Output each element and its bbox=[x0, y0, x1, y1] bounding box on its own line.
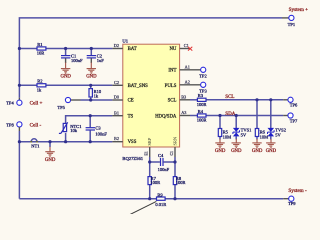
svg-text:INT: INT bbox=[168, 69, 176, 74]
resistor R8 100R bbox=[173, 176, 185, 185]
svg-text:R9: R9 bbox=[157, 192, 163, 197]
svg-text:TP1: TP1 bbox=[288, 22, 296, 27]
test point TP9 bbox=[283, 196, 296, 206]
resistor R4 100R bbox=[197, 109, 207, 123]
test point TP5 bbox=[57, 97, 80, 110]
annotation leader line bbox=[130, 201, 156, 214]
wire R5 column bbox=[219, 116, 221, 140]
ground under TVS2 bbox=[266, 139, 277, 154]
wire TS row bbox=[66, 116, 113, 142]
svg-text:SRP: SRP bbox=[147, 137, 152, 145]
wire R6 column bbox=[256, 100, 258, 140]
svg-text:TP7: TP7 bbox=[290, 118, 298, 123]
svg-text:A1: A1 bbox=[185, 65, 190, 70]
test point TP8 bbox=[6, 122, 22, 131]
pin INT A1 wire to TP2 bbox=[180, 65, 201, 70]
resistor R7 100R bbox=[148, 176, 160, 185]
wire bottom rail System- bbox=[19, 198, 283, 200]
svg-text:C2: C2 bbox=[114, 80, 119, 85]
op IC U1 BQ27Z561 body bbox=[122, 39, 179, 161]
svg-text:TP6: TP6 bbox=[290, 103, 298, 108]
svg-text:TP9: TP9 bbox=[288, 201, 296, 206]
svg-text:100R: 100R bbox=[197, 118, 207, 123]
wire R7 column bbox=[149, 162, 151, 199]
svg-text:R2: R2 bbox=[37, 79, 42, 84]
wire top rail Cell+ to System+ bbox=[19, 18, 282, 98]
svg-text:GND: GND bbox=[266, 149, 277, 154]
svg-text:B3: B3 bbox=[181, 95, 186, 100]
capacitor C2 1uF bbox=[87, 49, 105, 64]
svg-text:GND: GND bbox=[215, 149, 226, 154]
svg-text:HDQ/SDA: HDQ/SDA bbox=[155, 114, 177, 119]
wire TVS1 column bbox=[235, 116, 237, 140]
svg-text:C1: C1 bbox=[170, 151, 174, 156]
svg-text:A2: A2 bbox=[185, 80, 190, 85]
svg-text:System -: System - bbox=[288, 188, 307, 194]
pin CE D0 bbox=[112, 95, 122, 100]
svg-text:10k: 10k bbox=[70, 128, 78, 133]
ground under C2 bbox=[86, 63, 97, 80]
svg-text:NU: NU bbox=[169, 47, 176, 52]
svg-text:SCL: SCL bbox=[168, 99, 177, 104]
svg-text:10M: 10M bbox=[223, 135, 232, 140]
svg-text:10M: 10M bbox=[260, 135, 269, 140]
svg-text:TP3: TP3 bbox=[199, 89, 207, 94]
svg-text:BAT: BAT bbox=[128, 47, 137, 52]
pin PULS A2 wire to TP3 bbox=[180, 80, 201, 85]
pin BAT D2 bbox=[112, 43, 122, 48]
svg-text:10R: 10R bbox=[37, 51, 45, 56]
svg-text:B1: B1 bbox=[114, 110, 119, 115]
pin VSS B2 bbox=[112, 136, 122, 142]
power label System + bbox=[289, 7, 309, 13]
svg-text:100nF: 100nF bbox=[158, 167, 170, 172]
svg-text:C4: C4 bbox=[158, 153, 164, 158]
svg-text:TP4: TP4 bbox=[6, 101, 14, 106]
wire CE row bbox=[81, 99, 113, 101]
ground under R5 bbox=[215, 139, 226, 154]
TVS diode TVS1 5V bbox=[233, 128, 251, 138]
resistor R9 0.01R sense bbox=[155, 192, 166, 207]
power label Cell + bbox=[30, 101, 43, 107]
svg-text:System +: System + bbox=[289, 7, 309, 13]
capacitor C3 100nF bbox=[86, 116, 108, 142]
svg-text:D2: D2 bbox=[114, 43, 119, 48]
svg-text:100nF: 100nF bbox=[95, 131, 107, 136]
svg-text:PULS: PULS bbox=[165, 84, 177, 89]
svg-text:E1: E1 bbox=[145, 151, 149, 155]
svg-text:BQ27Z561: BQ27Z561 bbox=[122, 156, 143, 161]
svg-text:100R: 100R bbox=[150, 180, 160, 185]
ground under R6 bbox=[252, 139, 263, 154]
ground under TVS1 bbox=[231, 139, 242, 154]
TVS diode TVS2 5V bbox=[268, 128, 286, 138]
wire BAT_SNS row bbox=[19, 84, 112, 86]
resistor R6 10M bbox=[255, 129, 268, 140]
net label SCL bbox=[225, 95, 234, 100]
pin TS B1 bbox=[112, 110, 122, 115]
svg-text:1uF: 1uF bbox=[97, 58, 105, 63]
svg-text:1k: 1k bbox=[94, 94, 99, 99]
wire left vertical Cell- bbox=[18, 131, 20, 199]
svg-text:Cell +: Cell + bbox=[30, 101, 43, 107]
svg-text:100R: 100R bbox=[176, 180, 186, 185]
svg-text:GND: GND bbox=[86, 75, 97, 80]
svg-text:U1: U1 bbox=[122, 39, 128, 44]
resistor R10 1k bbox=[89, 85, 102, 100]
test point TP7 bbox=[283, 113, 298, 123]
svg-text:NT1: NT1 bbox=[31, 144, 39, 149]
svg-text:SCL: SCL bbox=[225, 95, 234, 100]
svg-text:Cell -: Cell - bbox=[30, 122, 42, 128]
pin HDQ/SDA A3 bbox=[180, 110, 190, 115]
svg-text:BAT_SNS: BAT_SNS bbox=[128, 84, 149, 89]
svg-text:5V: 5V bbox=[275, 133, 281, 138]
svg-text:CE: CE bbox=[128, 99, 134, 104]
svg-text:TP8: TP8 bbox=[6, 122, 14, 127]
svg-text:SDA: SDA bbox=[225, 112, 235, 117]
svg-text:A3: A3 bbox=[181, 110, 186, 115]
test point TP3 bbox=[199, 82, 207, 93]
wire VSS row bbox=[19, 141, 112, 143]
svg-text:GND: GND bbox=[60, 75, 71, 80]
svg-text:GND: GND bbox=[45, 158, 56, 163]
resistor R5 10M bbox=[218, 129, 231, 140]
svg-text:C3: C3 bbox=[95, 125, 101, 130]
pin NU C1 no-connect bbox=[180, 43, 193, 50]
resistor R1 10R bbox=[37, 42, 46, 56]
test point TP2 bbox=[199, 67, 207, 78]
svg-text:R1: R1 bbox=[37, 42, 42, 47]
test point TP1 bbox=[282, 15, 295, 27]
net tie NT1 bbox=[30, 139, 39, 149]
svg-text:TP2: TP2 bbox=[199, 74, 207, 79]
wire C4 row under IC bbox=[150, 157, 175, 162]
svg-text:1k: 1k bbox=[37, 87, 42, 92]
ground under C1 bbox=[60, 63, 71, 80]
svg-text:100R: 100R bbox=[197, 102, 207, 107]
svg-text:5V: 5V bbox=[241, 133, 247, 138]
resistor R3 100R bbox=[197, 93, 207, 107]
svg-text:TS: TS bbox=[128, 114, 134, 119]
ground on VSS rail bbox=[45, 142, 56, 163]
svg-text:R4: R4 bbox=[198, 109, 204, 114]
svg-text:SRN: SRN bbox=[173, 136, 178, 145]
wire SCL row bbox=[190, 99, 283, 101]
pin SCL B3 bbox=[180, 95, 190, 100]
svg-text:D0: D0 bbox=[114, 95, 119, 100]
power label Cell - bbox=[30, 122, 42, 128]
svg-text:GND: GND bbox=[252, 149, 263, 154]
capacitor C4 100nF bbox=[158, 153, 170, 172]
svg-text:0.01R: 0.01R bbox=[155, 202, 166, 207]
net label SDA bbox=[225, 112, 235, 117]
wire BAT row left bbox=[19, 48, 112, 50]
wire TVS2 column bbox=[270, 100, 272, 140]
power label System - bbox=[288, 188, 307, 194]
svg-text:B2: B2 bbox=[114, 136, 119, 141]
wire R8 column bbox=[174, 162, 176, 199]
svg-text:100nF: 100nF bbox=[71, 58, 83, 63]
test point TP4 bbox=[6, 98, 22, 106]
pin SRP E1 bbox=[145, 147, 150, 157]
svg-text:VSS: VSS bbox=[128, 140, 137, 145]
svg-text:C1: C1 bbox=[184, 43, 189, 48]
thermistor NTC1 10k bbox=[59, 122, 82, 133]
svg-text:R3: R3 bbox=[198, 93, 204, 98]
pin SRN C1 bbox=[170, 147, 175, 157]
resistor R2 1k bbox=[37, 79, 46, 93]
svg-text:GND: GND bbox=[231, 149, 242, 154]
wire SDA row bbox=[190, 115, 283, 117]
capacitor C1 100nF bbox=[61, 49, 83, 64]
test point TP6 bbox=[283, 97, 298, 107]
pin BAT_SNS C2 bbox=[112, 80, 122, 85]
svg-text:TP5: TP5 bbox=[57, 105, 65, 110]
